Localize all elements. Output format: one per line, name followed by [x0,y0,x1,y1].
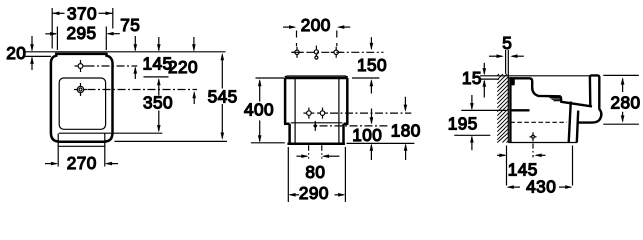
node bolt marker [530,132,537,141]
bidet body outline (plan) [51,54,113,142]
dimension 545 (vertical, col 4) [208,53,238,140]
dimension 100 [352,109,382,161]
node bolt axis (vertical dash-dot) [532,144,534,158]
wall hatching [497,74,508,143]
wire hidden drain line (dashed) [510,121,566,123]
rear underside line [510,109,529,111]
svg-text:290: 290 [299,183,329,203]
svg-text:400: 400 [244,99,274,119]
svg-text:295: 295 [66,23,96,43]
dimension 20 [6,36,34,70]
svg-text:200: 200 [301,15,331,35]
wire wall face line [507,50,509,143]
dimension 295 [45,23,106,50]
dimension 5 [489,33,524,58]
bowl inner rim (plan) [59,78,105,129]
dimension 270 [45,133,118,173]
dimension 200 [283,15,350,46]
svg-text:220: 220 [168,57,198,77]
svg-text:5: 5 [502,33,512,53]
dimension 145 (vertical chain, col 1) [134,36,173,79]
node fixing axis (dash-dot) [330,112,411,114]
fixing bracket [511,78,515,85]
bidet front outline [284,76,348,144]
hole B2 (right fixing circle) [317,108,328,119]
hole F2 (middle fixing hole) [314,46,318,60]
dimension 430 [507,146,573,197]
wire upstand top extension [480,78,499,80]
wire ledge steps [550,98,561,101]
svg-text:180: 180 [391,121,421,141]
dimension 290 [288,147,345,203]
wire body bottom extension line [115,140,228,142]
svg-text:100: 100 [352,125,382,145]
dimension 400 [244,78,284,143]
dimension 75 leader arrow [106,15,140,35]
svg-text:80: 80 [305,162,325,182]
hole F3 (right tap hole) [331,47,342,58]
svg-text:280: 280 [610,92,640,112]
svg-text:20: 20 [6,43,26,63]
wire 280 bottom extension [603,123,639,125]
dimension 370 [52,3,113,48]
svg-text:350: 350 [143,92,173,112]
svg-text:270: 270 [67,153,97,173]
node faucet axis (dash-dot) [291,51,383,53]
wire L1 underside extension [461,109,507,111]
wire bowl bottom extension line [59,132,162,134]
hole H1 (tap hole, plan) [75,60,87,72]
svg-text:545: 545 [208,86,238,106]
front interior wall [578,75,601,122]
svg-text:370: 370 [67,3,97,23]
wire top reference line A [23,51,226,53]
dimension 180 [391,97,421,160]
rear face [509,77,511,142]
wire tile surface line [505,50,507,74]
wire 280 top extension [603,74,639,76]
dimension 15 [462,63,486,98]
dimension 350 (vertical chain, col 2) [143,37,173,132]
wire floor reference right [347,142,415,144]
pedestal left edge [569,102,571,143]
wire floor reference left [251,142,285,144]
node drain axis (dash-dot) [320,125,388,127]
hole B1 (left fixing circle) [303,108,314,119]
wire rim top line (front) [287,75,347,77]
svg-text:75: 75 [120,15,140,35]
dimension 195 [448,95,491,150]
dimension 80 [297,145,340,182]
wire inner side wall left [294,79,296,143]
node H2 axis (dash-dot) [88,89,198,91]
hole D1 (drain diamond) [313,121,318,131]
ledge slope [561,96,592,106]
dimension 280 [610,77,640,122]
wire inner side wall right [338,79,340,143]
dimension 220 (vertical, col 3) [168,37,198,104]
node H1 axis (dash-dot) [87,65,138,67]
upstand top [509,78,561,96]
svg-text:195: 195 [448,113,478,133]
wire front lip line [58,145,105,147]
wire interior shelf line [291,122,343,124]
svg-text:15: 15 [462,68,482,88]
dimension 145 (side) [497,154,546,180]
bidet side profile [509,75,601,142]
svg-text:150: 150 [357,55,387,75]
wire rear ledge line B [23,55,51,57]
wire floor line (side) [508,142,577,144]
svg-text:430: 430 [526,176,556,196]
wire rim top line (side) [480,75,592,77]
hole F1 (left tap hole) [292,47,303,58]
pedestal right edge [577,111,578,143]
dimension 150 [352,37,387,93]
hole H2 (drain hole, plan) [74,83,87,96]
